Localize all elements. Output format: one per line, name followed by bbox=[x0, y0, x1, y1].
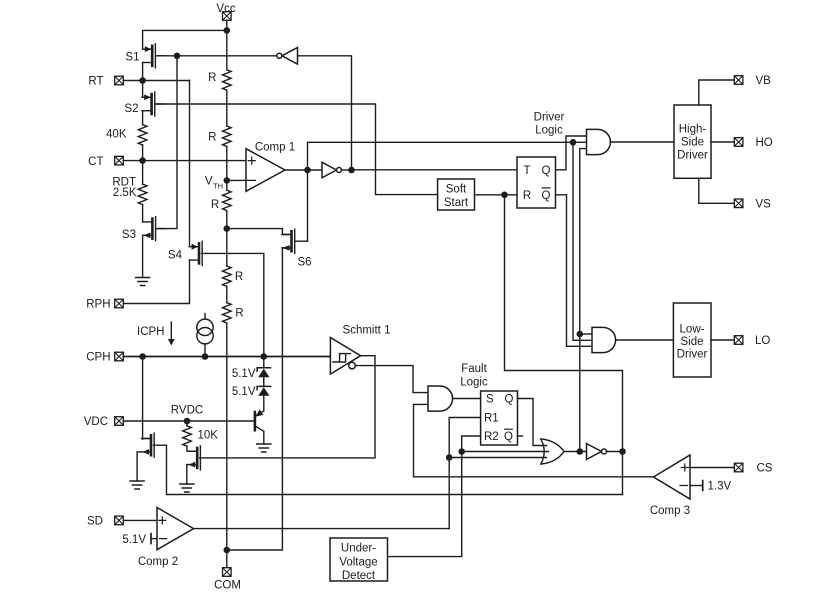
Schmitt trigger Schmitt 1 bbox=[330, 325, 390, 375]
wire CT row to Comp1 plus input bbox=[123, 160, 246, 162]
transistor S2 bbox=[142, 92, 165, 116]
inverter top (feedback to S1/S3 gates) bbox=[277, 48, 298, 65]
wire fault column to driver AND third input bbox=[580, 149, 587, 452]
wire Soft Start to R input bbox=[475, 194, 518, 196]
wire node to R bbox=[226, 229, 228, 266]
label Driver Logic bbox=[534, 111, 565, 136]
op-amp Comp 2 bbox=[138, 508, 194, 568]
wire S3 source to ground bbox=[142, 235, 144, 277]
wire S1 gate node down to S3 gate bbox=[156, 56, 177, 229]
wire M1 source to ground bbox=[137, 452, 141, 481]
wire Vcc lead bbox=[226, 20, 228, 30]
wire Qbar stub bbox=[518, 435, 523, 437]
svg-text:Driver: Driver bbox=[677, 150, 708, 162]
wire S6 gate up and driver logic row bbox=[308, 142, 587, 241]
svg-text:Voltage: Voltage bbox=[339, 556, 377, 568]
svg-text:RT: RT bbox=[88, 76, 103, 88]
transistor S1 bbox=[143, 44, 166, 68]
node CPH zener branch bbox=[261, 353, 268, 360]
node CPH current source bbox=[202, 353, 209, 360]
wire M1 drain corner bbox=[143, 438, 151, 440]
ground under M2 bbox=[180, 484, 194, 492]
svg-text:CT: CT bbox=[88, 156, 103, 168]
resistor R (top) bbox=[208, 70, 231, 90]
wire RVDC node to 10K bbox=[186, 421, 188, 426]
resistor 10K bbox=[183, 426, 219, 446]
svg-text:R: R bbox=[235, 308, 243, 320]
transistor NPN clamp bbox=[255, 409, 264, 444]
wire 10K to M2 drain bbox=[187, 446, 197, 451]
wire fault AND output to S input bbox=[453, 398, 481, 400]
flip-flop fault latch S/R1/R2 bbox=[481, 391, 518, 445]
CS terminal bbox=[734, 463, 773, 475]
resistor RDT 2.5K bbox=[112, 177, 147, 205]
VS terminal bbox=[734, 199, 771, 211]
wire R2 node down to UV detect bbox=[388, 452, 462, 557]
svg-text:Detect: Detect bbox=[342, 570, 376, 582]
svg-text:R2: R2 bbox=[484, 431, 499, 443]
svg-text:Comp 2: Comp 2 bbox=[138, 556, 178, 568]
Soft Start block bbox=[438, 179, 475, 210]
CPH terminal bbox=[86, 352, 123, 364]
wire low AND output to low side driver bbox=[616, 339, 674, 341]
node fault inverter output junction bbox=[619, 448, 626, 455]
wire CPH row to Schmitt input bbox=[123, 356, 330, 358]
svg-text:SD: SD bbox=[87, 516, 103, 528]
op-amp Comp 1 bbox=[246, 142, 295, 192]
svg-text:VS: VS bbox=[756, 199, 772, 211]
wire 40K to CT node bbox=[142, 145, 144, 161]
block Low-Side Driver bbox=[673, 303, 711, 377]
wire RT row down to S4 drain bbox=[189, 81, 191, 247]
wire VTH to R bbox=[226, 180, 228, 190]
wire CS row bbox=[690, 467, 734, 469]
OR gate fault bbox=[541, 439, 564, 464]
svg-text:5.1V: 5.1V bbox=[232, 368, 256, 380]
flip-flop T/R latch bbox=[517, 157, 556, 208]
wire Comp3 output to fault AND lower input bbox=[414, 404, 654, 476]
wire top inverter out to S1 gate bbox=[155, 55, 276, 57]
label Fault Logic bbox=[460, 363, 488, 388]
svg-text:RVDC: RVDC bbox=[171, 405, 203, 417]
transistor S3 bbox=[143, 217, 166, 241]
wire inverter out to T row bbox=[342, 169, 352, 171]
wire COM node to terminal bbox=[226, 550, 228, 568]
wire VB lead bbox=[699, 80, 734, 105]
svg-text:R: R bbox=[208, 132, 216, 144]
transistor S4 bbox=[189, 241, 202, 265]
wire Qbar output down to low AND bbox=[556, 195, 593, 346]
wire S4 source to RPH bbox=[123, 260, 189, 303]
node CPH-VDC branch bbox=[139, 353, 146, 360]
node R input branch bbox=[501, 192, 508, 199]
svg-text:Q: Q bbox=[505, 394, 514, 406]
wire S6 source down to COM row bbox=[227, 248, 291, 550]
node OR output fault column bbox=[577, 448, 584, 455]
svg-text:R: R bbox=[208, 72, 216, 84]
ground under S3 bbox=[136, 278, 150, 286]
svg-text:2.5K: 2.5K bbox=[113, 187, 137, 199]
label VTH bbox=[205, 176, 223, 191]
wire HO lead bbox=[711, 141, 734, 143]
svg-text:40K: 40K bbox=[106, 129, 127, 141]
svg-text:VB: VB bbox=[756, 75, 772, 87]
svg-text:R1: R1 bbox=[484, 413, 499, 425]
resistor R (third) bbox=[211, 190, 231, 211]
wire R to R bbox=[226, 286, 228, 302]
wire R to VTH node bbox=[226, 146, 228, 180]
ground under NPN bbox=[257, 444, 271, 452]
wire junction down to low AND middle input bbox=[573, 142, 592, 340]
node inverter output bbox=[348, 167, 355, 174]
node driver AND input junction bbox=[570, 139, 577, 146]
svg-text:CS: CS bbox=[757, 463, 773, 475]
VB terminal bbox=[734, 75, 771, 87]
svg-text:HO: HO bbox=[756, 137, 773, 149]
node Vcc rail junction bbox=[224, 27, 231, 34]
wire Q output up to driver AND bbox=[556, 136, 587, 170]
wire S2 source to 40K bbox=[142, 111, 144, 125]
wire VS lead bbox=[699, 178, 734, 203]
wire RT node to S2 drain bbox=[142, 81, 144, 98]
wire Comp1 output bbox=[285, 169, 322, 171]
svg-text:Driver: Driver bbox=[677, 349, 708, 361]
wire R1 input to comp2 column bbox=[449, 418, 480, 529]
wire CT node to RDT bbox=[142, 161, 144, 185]
wire VTH to Comp1 minus input bbox=[227, 179, 246, 181]
svg-text:S3: S3 bbox=[122, 229, 136, 241]
COM terminal bbox=[214, 568, 241, 592]
inverter after Comp1 bbox=[322, 162, 342, 178]
svg-text:10K: 10K bbox=[198, 429, 219, 441]
svg-text:S4: S4 bbox=[168, 250, 183, 262]
svg-text:Soft: Soft bbox=[446, 184, 467, 196]
wire node to low AND first input bbox=[580, 333, 592, 335]
svg-text:COM: COM bbox=[214, 580, 241, 592]
op-amp Comp 3 bbox=[650, 455, 690, 517]
wire node to S6 drain bbox=[227, 229, 291, 235]
svg-text:R: R bbox=[235, 271, 243, 283]
svg-text:High-: High- bbox=[679, 124, 707, 136]
ground under M1 bbox=[130, 481, 144, 489]
node CT junction bbox=[139, 157, 146, 164]
zener diode 5.1V bbox=[232, 377, 271, 410]
svg-text:S: S bbox=[486, 394, 494, 406]
svg-text:Vcc: Vcc bbox=[216, 3, 235, 15]
VDC terminal bbox=[84, 416, 124, 428]
svg-text:Q: Q bbox=[542, 165, 551, 177]
svg-text:ICPH: ICPH bbox=[137, 326, 164, 338]
label ICPH with arrow bbox=[137, 322, 175, 346]
CT terminal bbox=[88, 156, 123, 168]
wire OR middle input bbox=[462, 451, 549, 453]
wire R to R bbox=[226, 90, 228, 126]
wire LO lead bbox=[711, 339, 734, 341]
svg-text:Under-: Under- bbox=[341, 543, 376, 555]
AND gate low side bbox=[592, 327, 616, 352]
wire Vcc rail to S1 drain bbox=[143, 30, 227, 49]
wire S2 gate row bbox=[155, 104, 438, 195]
svg-text:Driver: Driver bbox=[534, 111, 565, 123]
wire M1 gate to fault column bbox=[154, 445, 622, 494]
svg-text:Low-: Low- bbox=[680, 324, 705, 336]
wire VDC row to NPN base bbox=[123, 420, 253, 422]
svg-text:Logic: Logic bbox=[460, 376, 488, 388]
current source ICPH bbox=[197, 314, 213, 357]
resistor R (second) bbox=[208, 126, 231, 146]
wire S1 source to RT node bbox=[142, 63, 144, 81]
HO terminal bbox=[734, 137, 773, 149]
node RT junction bbox=[139, 77, 146, 84]
svg-text:Schmitt 1: Schmitt 1 bbox=[343, 325, 391, 337]
block High-Side Driver bbox=[674, 105, 711, 178]
node fault column to low AND bbox=[577, 331, 584, 338]
svg-text:R: R bbox=[523, 190, 531, 202]
Schmitt inverted output bubble bbox=[349, 362, 356, 369]
wire Comp2 output to R1 column bbox=[194, 528, 450, 530]
transistor S6 bbox=[282, 229, 308, 253]
svg-text:Start: Start bbox=[444, 197, 469, 209]
svg-text:R: R bbox=[211, 199, 219, 211]
wire fault inverter output bbox=[607, 451, 623, 453]
resistor R (fourth) bbox=[223, 266, 244, 286]
inverter fault bbox=[587, 444, 607, 460]
resistor 40K bbox=[106, 125, 147, 145]
svg-text:5.1V: 5.1V bbox=[122, 534, 146, 546]
node Comp1 output to S6 gate column bbox=[304, 167, 311, 174]
wire R ladder down to COM node bbox=[226, 323, 228, 550]
wire M2 source to ground bbox=[186, 465, 189, 484]
transistor M2 (10K switch) bbox=[188, 446, 201, 470]
wire R branch down to fault inverter node bbox=[505, 195, 623, 495]
node S6 drain junction bbox=[224, 225, 231, 232]
wire Schmitt inverted output to fault AND bbox=[355, 366, 428, 393]
transistor M1 (VDC switch) bbox=[141, 433, 154, 457]
Vcc terminal bbox=[216, 3, 235, 20]
node S1 gate junction bbox=[174, 53, 181, 60]
wire S4 gate to zener column bbox=[202, 253, 264, 356]
zener diode 5.1V bbox=[232, 357, 271, 386]
AND gate fault set bbox=[428, 386, 453, 411]
svg-text:VDC: VDC bbox=[84, 416, 108, 428]
reference 5.1V comp2 bbox=[122, 534, 157, 546]
svg-text:RPH: RPH bbox=[86, 299, 110, 311]
node R2 OR-input junction bbox=[458, 448, 465, 455]
reference 1.3V bbox=[690, 481, 731, 493]
wire M2 gate row to Schmitt output bbox=[200, 356, 375, 458]
svg-text:Side: Side bbox=[680, 336, 703, 348]
svg-text:TH: TH bbox=[213, 181, 223, 190]
svg-text:Comp 1: Comp 1 bbox=[255, 142, 295, 154]
RPH terminal bbox=[86, 299, 123, 311]
svg-text:S6: S6 bbox=[297, 257, 311, 269]
svg-text:Fault: Fault bbox=[461, 363, 487, 375]
wire R2 input bbox=[462, 436, 481, 452]
wire T input row bbox=[352, 169, 518, 171]
svg-text:Logic: Logic bbox=[535, 124, 563, 136]
SD terminal bbox=[87, 516, 123, 528]
svg-text:V: V bbox=[205, 176, 213, 188]
wire fault Q output to OR bbox=[518, 399, 547, 446]
RT terminal bbox=[88, 76, 123, 88]
svg-text:LO: LO bbox=[755, 335, 770, 347]
node R1 OR-input junction bbox=[446, 454, 453, 461]
wire RDT to S3 drain bbox=[142, 205, 144, 223]
svg-text:T: T bbox=[523, 165, 530, 177]
resistor R (fifth) bbox=[223, 303, 244, 323]
svg-text:5.1V: 5.1V bbox=[232, 386, 256, 398]
LO terminal bbox=[734, 335, 770, 347]
svg-text:1.3V: 1.3V bbox=[708, 481, 732, 493]
node RVDC bbox=[184, 418, 191, 425]
node VTH bbox=[224, 177, 231, 184]
wire RT row bbox=[123, 80, 189, 82]
svg-text:S2: S2 bbox=[124, 103, 138, 115]
wire SD row bbox=[123, 519, 157, 521]
block Under-Voltage Detect bbox=[330, 538, 388, 582]
svg-text:Comp 3: Comp 3 bbox=[650, 505, 690, 517]
svg-text:CPH: CPH bbox=[86, 352, 110, 364]
AND gate driver logic (high side) bbox=[587, 129, 611, 154]
wire OR output to fault inverter bbox=[564, 451, 587, 453]
svg-text:S1: S1 bbox=[125, 52, 139, 64]
node COM junction bbox=[224, 547, 231, 554]
wire Vcc node to R bbox=[226, 30, 228, 69]
wire driver AND output to high side driver bbox=[611, 141, 675, 143]
wire R to S6 node bbox=[226, 211, 228, 229]
wire node up to top inverter bbox=[298, 56, 352, 170]
wire CPH node down to M1 drain bbox=[142, 357, 144, 440]
wire OR lower input bbox=[449, 457, 546, 459]
svg-text:Q: Q bbox=[542, 190, 551, 202]
svg-text:Q: Q bbox=[504, 431, 513, 443]
svg-text:Side: Side bbox=[681, 137, 704, 149]
